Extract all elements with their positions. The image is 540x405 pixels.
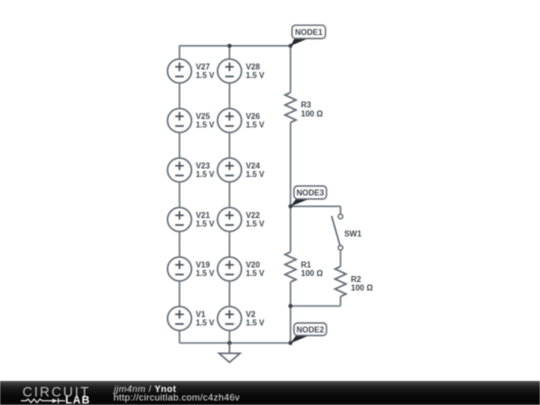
- footer bar: [0, 381, 540, 405]
- junction dot NODE1: [288, 44, 292, 48]
- resistor R2: [335, 267, 373, 297]
- svg-text:1.5 V: 1.5 V: [196, 220, 215, 229]
- junction dot NODE3: [288, 204, 292, 208]
- resistor R1: [285, 252, 323, 282]
- voltage source V20 1.5 V: [218, 257, 266, 281]
- voltage source V2 1.5 V: [218, 307, 266, 331]
- voltage source V21 1.5 V: [168, 208, 216, 232]
- svg-text:http://circuitlab.com/c4zh46v: http://circuitlab.com/c4zh46v: [114, 392, 240, 403]
- voltage source V26 1.5 V: [218, 109, 266, 133]
- svg-text:R3: R3: [301, 101, 312, 110]
- switch SW1: [332, 214, 362, 250]
- voltage source V1 1.5 V: [168, 307, 216, 331]
- node flag NODE1: [291, 25, 326, 46]
- wire R2 bottom lead: [340, 297, 342, 307]
- voltage source V23 1.5 V: [168, 158, 216, 182]
- logo resistor-diode graphic: [21, 399, 53, 403]
- svg-text:1.5 V: 1.5 V: [246, 220, 265, 229]
- svg-text:1.5 V: 1.5 V: [246, 269, 265, 278]
- svg-text:1.5 V: 1.5 V: [246, 121, 265, 130]
- wire switch to R2: [340, 250, 342, 266]
- wire switch branch top: [340, 206, 342, 214]
- voltage source V24 1.5 V: [218, 158, 266, 182]
- junction dot NODE2: [288, 341, 292, 345]
- wire right battery column vertical: [229, 46, 231, 343]
- svg-text:NODE3: NODE3: [296, 189, 324, 198]
- svg-text:100 Ω: 100 Ω: [301, 269, 324, 278]
- svg-text:1.5 V: 1.5 V: [196, 71, 215, 80]
- svg-text:1.5 V: 1.5 V: [196, 170, 215, 179]
- junction dot R1 bottom / R2 bus: [288, 304, 292, 308]
- svg-text:1.5 V: 1.5 V: [246, 71, 265, 80]
- svg-text:R2: R2: [351, 275, 362, 284]
- node flag NODE2: [291, 323, 327, 343]
- resistor R3: [285, 93, 323, 123]
- svg-text:1.5 V: 1.5 V: [196, 319, 215, 328]
- svg-text:1.5 V: 1.5 V: [196, 121, 215, 130]
- svg-text:1.5 V: 1.5 V: [246, 170, 265, 179]
- svg-text:100 Ω: 100 Ω: [301, 109, 324, 118]
- wire right rail R3 to R1: [290, 123, 292, 253]
- svg-text:NODE1: NODE1: [295, 28, 323, 37]
- svg-text:100 Ω: 100 Ω: [351, 284, 374, 293]
- svg-text:1.5 V: 1.5 V: [196, 269, 215, 278]
- voltage source V19 1.5 V: [168, 257, 216, 281]
- wire R2 bottom to right rail: [291, 305, 341, 307]
- voltage source V22 1.5 V: [218, 208, 266, 232]
- wire right rail R1 to NODE2: [290, 282, 292, 343]
- voltage source V28 1.5 V: [218, 59, 266, 83]
- node flag NODE3: [291, 186, 327, 206]
- svg-text:1.5 V: 1.5 V: [246, 319, 265, 328]
- junction dot bottom bus at right column / ground: [227, 341, 231, 345]
- junction dot top bus at right column: [227, 44, 231, 48]
- wire right rail NODE1 to R3: [290, 46, 292, 93]
- svg-text:NODE2: NODE2: [296, 325, 324, 334]
- voltage source V27 1.5 V: [168, 59, 216, 83]
- svg-text:LAB: LAB: [65, 394, 90, 405]
- svg-text:SW1: SW1: [344, 230, 362, 239]
- wire bottom bus from left column to NODE2: [180, 342, 291, 344]
- voltage source V25 1.5 V: [168, 109, 216, 133]
- wire left battery column vertical: [179, 46, 181, 343]
- wire NODE3 to switch branch: [291, 205, 341, 207]
- wire top bus from left column to NODE1: [180, 45, 291, 47]
- svg-text:R1: R1: [301, 260, 312, 269]
- ground: [219, 343, 240, 362]
